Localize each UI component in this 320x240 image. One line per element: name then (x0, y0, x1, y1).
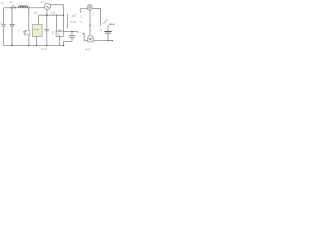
svg-text:X-C: X-C (40, 0, 46, 4)
svg-text:K: K (100, 28, 102, 32)
svg-text:1.5: 1.5 (50, 11, 55, 15)
svg-text:r: r (1, 43, 2, 47)
svg-text:C: C (0, 21, 2, 25)
svg-text:m: m (74, 13, 76, 16)
svg-text:C-W: C-W (70, 20, 76, 24)
svg-text:S: S (52, 31, 54, 35)
svg-text:PV: PV (34, 28, 39, 32)
svg-text:2: 2 (92, 13, 94, 17)
svg-text:L1S: L1S (41, 47, 46, 51)
svg-text:HY5: HY5 (85, 47, 91, 51)
svg-text:Pr: Pr (1, 2, 4, 6)
svg-text:Sw: Sw (9, 0, 13, 4)
svg-text:E: E (80, 20, 82, 24)
